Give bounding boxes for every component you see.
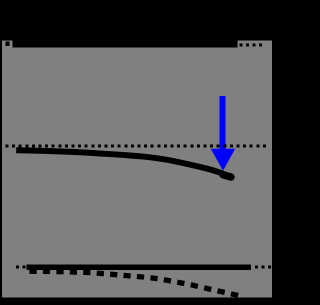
- deflected beam dashed curve: [30, 271, 239, 295]
- bottom ruler dotted left end: [16, 266, 26, 269]
- ceiling dash left: [5, 42, 9, 46]
- force arrow shaft: [220, 96, 226, 149]
- loaded beam solid curve: [16, 150, 224, 174]
- ceiling solid band: [13, 40, 238, 47]
- loaded beam end blob: [223, 175, 231, 177]
- ceiling dashes right: [240, 44, 263, 47]
- gray panel: [2, 40, 272, 297]
- force arrow head: [211, 149, 235, 171]
- unloaded beam dotted line: [6, 145, 266, 148]
- bottom ruler dotted right end: [255, 266, 271, 269]
- bottom ruler solid line: [27, 265, 252, 271]
